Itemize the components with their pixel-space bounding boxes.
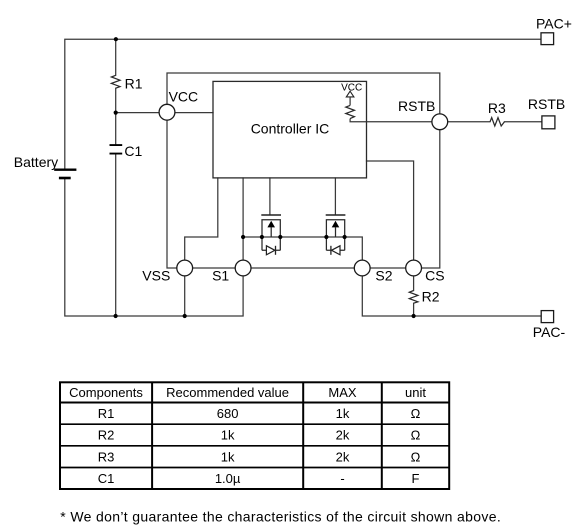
svg-text:1.0µ: 1.0µ [215,471,241,486]
node VSS [177,260,193,276]
table row R3 [98,449,421,464]
transistor M1 body diode [262,249,280,251]
wire gate pin M2 [334,178,336,214]
svg-text:RSTB: RSTB [528,96,565,112]
transistor M1 body [262,220,280,251]
svg-text:unit: unit [405,385,426,400]
wire CS to R2 [413,276,415,316]
svg-text:Ω: Ω [411,428,421,443]
svg-text:F: F [412,471,420,486]
svg-text:-: - [340,471,344,486]
table header row [69,385,426,400]
svg-text:S2: S2 [375,267,392,283]
wire IC to RSTB node [367,121,432,123]
svg-text:S1: S1 [212,267,229,283]
wire battery negative down and bottom-left rail to S1 riser [65,179,243,316]
svg-text:R3: R3 [98,449,115,464]
svg-text:VCC: VCC [169,89,199,105]
terminal PAC- [541,311,553,323]
svg-text:RSTB: RSTB [398,98,435,114]
svg-text:Controller IC: Controller IC [251,121,330,137]
wire S1 to S2 [251,267,354,269]
svg-text:Ω: Ω [411,406,421,421]
transistor M2 body [326,220,344,251]
node RSTB [432,114,448,130]
IC internal pull-up resistor [350,97,366,122]
svg-text:Components: Components [69,385,143,400]
svg-text:Ω: Ω [411,449,421,464]
svg-text:Recommended value: Recommended value [166,385,289,400]
wire CS to RSTB vertical [422,130,440,268]
IC internal VCC arrow triangle [346,91,354,97]
resistor R2 [409,291,418,304]
wire VCC down to VSS [167,120,177,268]
wire FET rail S1 to S2 [243,237,362,260]
wire VSS to S1 [193,267,236,269]
terminal PAC+ [541,33,554,45]
svg-text:680: 680 [217,406,239,421]
controller IC box [213,81,367,177]
wire VCC pull-up to RSTB [167,73,440,114]
transistor M1 gate bar [261,214,281,216]
svg-text:R1: R1 [98,406,115,421]
transistor M2 arrow [332,221,340,228]
svg-text:2k: 2k [336,428,350,443]
table row C1 [98,471,420,486]
terminal RSTB [542,116,555,129]
svg-text:R2: R2 [98,428,115,443]
svg-text:R1: R1 [125,76,143,92]
svg-text:VSS: VSS [142,268,170,284]
wire S2 drop and bottom-right rail to PAC- [362,276,541,316]
resistor R3 [490,118,505,126]
wire R1/C1 branch vertical [115,39,117,316]
wire top rail from battery to PAC+ [65,39,541,169]
node VCC [159,104,175,120]
svg-text:R2: R2 [422,289,440,305]
transistor M1 arrow [267,221,275,228]
svg-text:Battery: Battery [14,154,58,170]
wire RSTB node to R3 and RSTB terminal [448,121,542,123]
wire IC pin 1 step down to VSS [185,178,218,260]
table borders [60,382,449,489]
svg-text:R3: R3 [488,100,506,116]
node CS [406,260,422,276]
svg-text:PAC+: PAC+ [536,16,572,32]
svg-text:PAC-: PAC- [533,324,566,340]
svg-text:2k: 2k [336,449,350,464]
svg-text:1k: 1k [336,406,350,421]
wire gate pin M1 [269,178,271,214]
node S2 [354,260,370,276]
transistor M2 body diode [326,249,344,251]
battery symbol plates [54,169,76,171]
svg-text:MAX: MAX [328,385,357,400]
capacitor C1 plates [110,145,123,154]
svg-text:* We don’t guarantee the chara: * We don’t guarantee the characteristics… [60,509,501,525]
node S1 [235,260,251,276]
svg-text:C1: C1 [98,471,115,486]
table row R2 [98,428,421,443]
wire VCC node horizontal [116,112,213,114]
svg-text:1k: 1k [221,428,235,443]
wire VSS drop to bottom rail [184,276,186,316]
transistor M2 gate bar [326,214,346,216]
svg-text:CS: CS [425,267,444,283]
wire S1 riser to IC pin 2 [242,178,244,260]
table row R1 [98,406,421,421]
wire CS riser to IC right edge [367,161,414,260]
svg-text:VCC: VCC [341,83,362,94]
svg-text:1k: 1k [221,449,235,464]
wire S2 to CS [370,267,406,269]
svg-text:C1: C1 [124,143,142,159]
resistor R1 [111,75,120,88]
